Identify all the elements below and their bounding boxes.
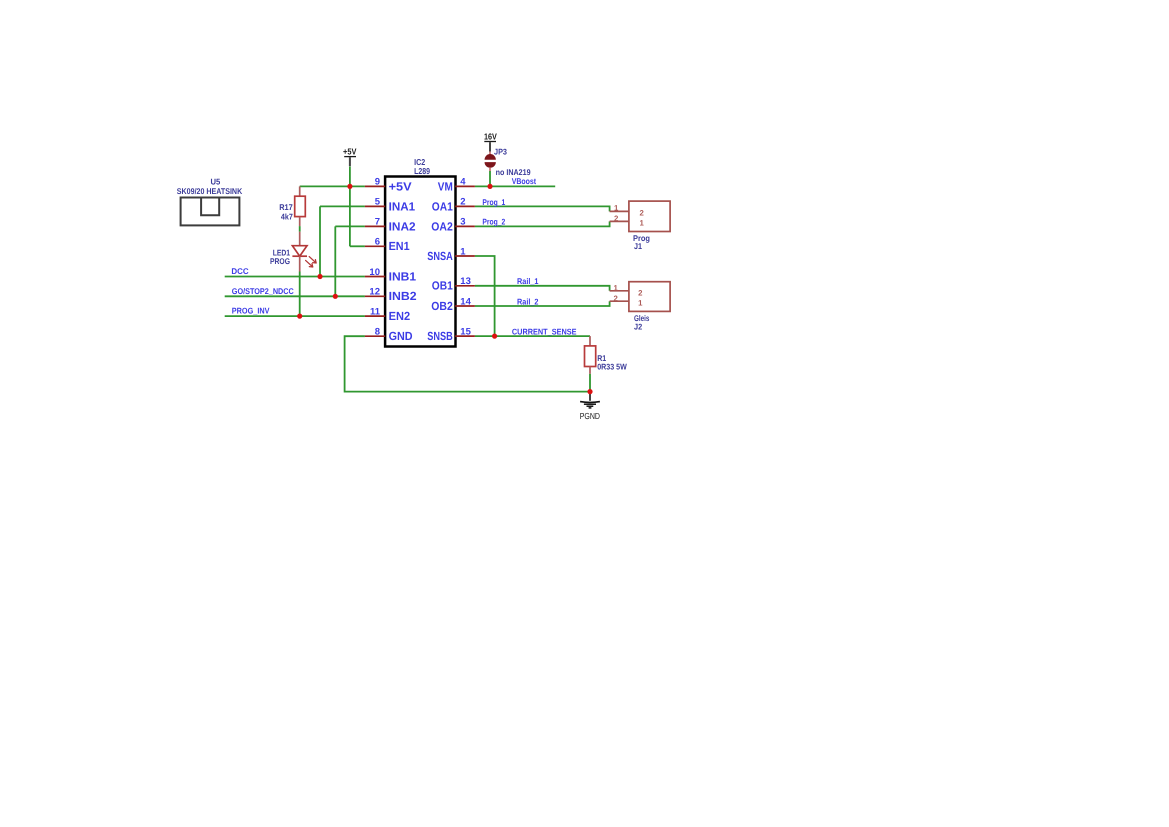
svg-text:SK09/20 HEATSINK: SK09/20 HEATSINK — [177, 186, 242, 196]
LED LED1 — [292, 232, 316, 272]
svg-text:INA2: INA2 — [389, 219, 416, 233]
wire PROG_INV — [225, 315, 365, 317]
wire GND loop — [345, 336, 590, 391]
svg-text:J1: J1 — [634, 241, 642, 251]
svg-text:GND: GND — [389, 329, 413, 343]
svg-text:INB2: INB2 — [389, 289, 417, 303]
wire EN1 — [350, 245, 365, 247]
heatsink U5 body — [181, 198, 240, 226]
pin 11 EN2 stub — [365, 315, 385, 317]
junction R1/PGND — [587, 389, 592, 394]
svg-text:2: 2 — [640, 209, 645, 218]
wire VM to VBoost — [475, 185, 555, 187]
junction SNSA/SNSB — [492, 334, 497, 339]
wire R1 to PGND node — [589, 374, 591, 392]
svg-text:1: 1 — [460, 246, 466, 257]
svg-text:1: 1 — [638, 299, 643, 308]
svg-text:2: 2 — [614, 214, 619, 223]
wire OA1 to J1 pin1 — [475, 206, 610, 211]
svg-text:7: 7 — [375, 217, 380, 228]
svg-text:PROG_INV: PROG_INV — [232, 306, 270, 316]
svg-text:8: 8 — [375, 327, 380, 338]
svg-text:0R33 5W: 0R33 5W — [597, 361, 627, 371]
svg-text:2: 2 — [460, 197, 465, 208]
svg-text:EN2: EN2 — [389, 309, 411, 323]
svg-text:6: 6 — [375, 237, 380, 248]
svg-text:OB1: OB1 — [432, 279, 453, 293]
pin 10 INB1 stub — [365, 276, 385, 278]
pin 2 OA1 stub — [455, 205, 475, 207]
svg-text:4k7: 4k7 — [281, 211, 293, 221]
svg-text:5: 5 — [375, 197, 381, 208]
svg-text:11: 11 — [370, 306, 381, 317]
svg-text:SNSA: SNSA — [427, 249, 453, 263]
resistor R1 — [585, 336, 596, 374]
wire DCC — [225, 276, 365, 278]
svg-text:1: 1 — [614, 203, 619, 212]
svg-text:13: 13 — [460, 276, 471, 287]
svg-text:INB1: INB1 — [389, 269, 417, 283]
pin 7 INA2 stub — [365, 225, 385, 227]
power symbol +5V — [343, 146, 357, 166]
pin 12 INB2 stub — [365, 295, 385, 297]
svg-text:1: 1 — [640, 219, 645, 228]
svg-text:PGND: PGND — [580, 411, 600, 421]
pin 8 GND stub — [365, 335, 385, 337]
svg-text:14: 14 — [460, 296, 471, 307]
svg-text:OB2: OB2 — [431, 299, 453, 313]
svg-text:L289: L289 — [414, 166, 430, 176]
svg-text:GO/STOP2_NDCC: GO/STOP2_NDCC — [232, 286, 294, 296]
svg-text:Rail_1: Rail_1 — [517, 276, 539, 286]
wire SNSA down to SNSB — [475, 256, 495, 336]
IC U2 box — [385, 177, 455, 347]
svg-text:CURRENT_SENSE: CURRENT_SENSE — [512, 326, 577, 336]
svg-text:1: 1 — [614, 283, 619, 292]
wire SNSB CURRENT_SENSE — [475, 335, 590, 337]
svg-text:Rail_2: Rail_2 — [517, 297, 539, 307]
svg-text:4: 4 — [460, 177, 466, 188]
pin 3 OA2 stub — [455, 225, 475, 227]
svg-text:PROG: PROG — [270, 256, 290, 266]
junction DCC/INA1 — [317, 274, 322, 279]
connector J2 — [610, 282, 671, 312]
pin 9 +5V stub — [365, 185, 385, 187]
svg-text:+5V: +5V — [343, 146, 357, 156]
connector J1 — [610, 201, 671, 231]
wire R17 to LED1 — [299, 226, 301, 232]
wire INA2 — [335, 226, 365, 296]
wire +5V to pin9 and R17 — [300, 185, 365, 187]
svg-text:12: 12 — [369, 287, 380, 298]
svg-text:VBoost: VBoost — [512, 176, 537, 186]
pin 6 EN1 stub — [365, 245, 385, 247]
svg-text:INA1: INA1 — [389, 199, 416, 213]
pin 14 OB2 stub — [455, 305, 475, 307]
wire LED1 to PROG_INV net — [299, 272, 301, 317]
svg-text:EN1: EN1 — [389, 239, 410, 253]
svg-text:9: 9 — [375, 177, 380, 188]
wire +5V vertical — [349, 167, 351, 247]
wire GO/STOP2_NDCC — [225, 295, 365, 297]
wire OA2 to J1 pin2 — [475, 221, 610, 226]
svg-text:2: 2 — [614, 294, 619, 303]
svg-text:Prog_2: Prog_2 — [482, 217, 505, 227]
wire INA1 — [320, 206, 365, 276]
svg-text:OA2: OA2 — [431, 219, 453, 233]
svg-text:J2: J2 — [634, 321, 643, 331]
svg-text:3: 3 — [460, 217, 465, 228]
svg-text:DCC: DCC — [231, 266, 248, 276]
resistor R17 — [295, 186, 306, 226]
junction VM/JP3 — [487, 184, 492, 189]
pin 5 INA1 stub — [365, 205, 385, 207]
svg-text:16V: 16V — [484, 132, 497, 142]
svg-text:JP3: JP3 — [494, 146, 507, 156]
wire OB2 to J2 pin2 — [475, 301, 610, 306]
ground PGND — [580, 392, 600, 408]
svg-text:VM: VM — [438, 179, 453, 193]
jumper JP3 — [485, 154, 496, 171]
pin 15 SNSB stub — [455, 335, 475, 337]
power symbol 16V — [484, 132, 497, 155]
junction +5V/pin9 — [347, 184, 352, 189]
junction PROG_INV/LED1 — [297, 314, 302, 319]
svg-text:10: 10 — [369, 267, 380, 278]
wire OB1 to J2 pin1 — [475, 286, 610, 291]
svg-text:Prog_1: Prog_1 — [482, 197, 505, 207]
svg-text:+5V: +5V — [389, 179, 412, 193]
pin 13 OB1 stub — [455, 285, 475, 287]
svg-text:15: 15 — [460, 326, 471, 337]
pin 1 SNSA stub — [455, 255, 475, 257]
junction GO/INA2 — [333, 294, 338, 299]
svg-text:SNSB: SNSB — [427, 329, 453, 343]
svg-text:OA1: OA1 — [432, 199, 453, 213]
pin 4 VM stub — [455, 185, 475, 187]
svg-text:2: 2 — [638, 288, 643, 297]
wire JP3 to VM net — [489, 171, 491, 186]
